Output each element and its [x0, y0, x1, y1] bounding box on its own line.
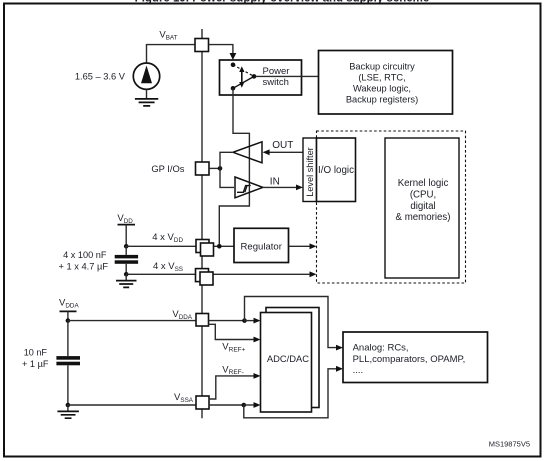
svg-text:VDDA: VDDA: [172, 309, 192, 321]
backup circuitry labels: [346, 61, 418, 104]
svg-text:& memories): & memories): [396, 212, 451, 223]
wire VBAT pin to power switch: [209, 45, 233, 54]
node regulator input junction: [217, 244, 222, 249]
main pin bus (vertical): [201, 29, 203, 418]
hysteresis symbol: [237, 186, 251, 193]
svg-text:digital: digital: [410, 201, 435, 212]
wire pin to junction: [209, 167, 220, 169]
GP I/Os pin square: [196, 162, 210, 175]
power switch box: [220, 60, 302, 95]
VDDA pin square: [196, 314, 209, 327]
svg-text:IN: IN: [270, 177, 280, 188]
svg-text:VDD: VDD: [117, 213, 133, 225]
wire power switch bottom to VDD junction (I/O buffer supply): [219, 88, 249, 246]
decoupling capacitors 4x100nF + 1x4.7uF: [115, 246, 138, 274]
svg-text:VREF+: VREF+: [222, 342, 245, 354]
svg-text:ADC/DAC: ADC/DAC: [267, 353, 309, 364]
arrow regulator to kernel domain: [310, 243, 317, 249]
OUT wire from level shifter: [269, 151, 303, 153]
arrow into power switch: [230, 53, 237, 60]
wire junction to input trigger: [220, 168, 234, 187]
arrow VREF+ into ADC/DAC: [254, 337, 261, 343]
analog block labels: [353, 343, 466, 376]
IN wire to level shifter: [263, 186, 297, 188]
dashed digital domain box: [317, 131, 466, 283]
svg-text:1.65 – 3.6 V: 1.65 – 3.6 V: [75, 72, 126, 82]
wire VSSA pin to ADC junction: [209, 404, 244, 406]
svg-text:I/O logic: I/O logic: [318, 165, 354, 176]
ADC/DAC back box: [266, 308, 319, 408]
svg-text:Power: Power: [263, 66, 290, 77]
kernel logic labels: [396, 178, 451, 223]
svg-text:Regulator: Regulator: [241, 242, 283, 253]
regulator output wire: [289, 245, 312, 247]
junction node GPIO: [218, 166, 223, 171]
VDDA wire: [68, 320, 196, 322]
svg-text:VSSA: VSSA: [174, 392, 194, 404]
svg-text:VREF-: VREF-: [222, 364, 244, 376]
I/O logic box: [317, 138, 356, 202]
svg-text:(CPU,: (CPU,: [410, 189, 436, 200]
VREF+ wire: [209, 324, 255, 339]
arrow VREF- into ADC/DAC: [254, 373, 261, 379]
svg-text:4 x VDD: 4 x VDD: [152, 232, 183, 244]
figure title (cut off at top edge): [135, 0, 430, 4]
VDD pin squares: [196, 240, 214, 257]
input Schmitt trigger triangle: [235, 177, 263, 198]
arrow VDDA into analog block: [336, 345, 343, 351]
svg-text:switch: switch: [263, 77, 289, 88]
ground (battery): [135, 99, 158, 106]
switch toggle double arrow: [239, 66, 244, 88]
level shifter box: [303, 138, 317, 202]
arrow VSSA into analog block: [336, 366, 343, 372]
node ADC VSSA junction: [242, 403, 247, 408]
svg-text:Level shifter: Level shifter: [305, 147, 315, 197]
node VDDA junction: [66, 318, 71, 323]
4 x VSS wire: [126, 273, 311, 275]
svg-text:GP I/Os: GP I/Os: [151, 163, 184, 174]
node VSS junction: [124, 272, 129, 277]
analog block box: [343, 332, 488, 383]
4 x VDD wire: [126, 245, 234, 247]
VREF- wire: [209, 376, 255, 399]
switch dashed throw: [233, 65, 254, 77]
svg-text:(LSE, RTC,: (LSE, RTC,: [358, 72, 405, 82]
VBAT pin square: [195, 39, 209, 52]
wire and arrow VDDA into ADC/DAC: [245, 320, 255, 322]
output buffer triangle: [233, 142, 262, 163]
wire VDDA pin to ADC junction: [209, 320, 245, 322]
switch solid throw: [233, 76, 254, 88]
wire junction to output buffer: [220, 152, 232, 168]
VSS pin squares: [196, 269, 214, 285]
svg-text:Kernel logic: Kernel logic: [398, 178, 449, 189]
svg-text:OUT: OUT: [272, 140, 293, 151]
VDDA rail symbol: [59, 298, 79, 321]
svg-text:10 nF: 10 nF: [24, 347, 48, 357]
node ADC VDDA junction: [242, 318, 247, 323]
wire and arrow VSSA into ADC/DAC: [244, 404, 254, 406]
arrow into level shifter: [296, 185, 303, 191]
VSSA wire: [68, 404, 196, 406]
VSSA wrap wire to analog block: [244, 369, 336, 418]
battery source V1 1.65-3.6 V: [133, 45, 195, 99]
regulator box: [234, 228, 289, 262]
switch pole node: [252, 74, 257, 79]
node VDD junction: [124, 244, 129, 249]
ground (VSSA): [57, 405, 79, 418]
ground (VSS): [116, 274, 137, 287]
wire power switch to backup circuitry: [256, 75, 319, 77]
ADC/DAC front box: [261, 313, 312, 413]
analog capacitors 10nF + 1uF: [56, 321, 80, 405]
svg-text:Backup circuitry: Backup circuitry: [349, 61, 415, 71]
svg-text:Analog: RCs,: Analog: RCs,: [353, 343, 409, 354]
svg-text:Backup registers): Backup registers): [346, 94, 418, 104]
svg-text:4 x VSS: 4 x VSS: [153, 261, 183, 273]
switch contact bottom node: [231, 86, 236, 91]
VSSA pin square: [196, 396, 209, 409]
svg-text:4 x 100 nF: 4 x 100 nF: [63, 250, 107, 260]
node VSSA junction: [66, 403, 71, 408]
kernel logic box: [385, 138, 459, 278]
svg-text:VDDA: VDDA: [59, 298, 79, 310]
VDD rail symbol: [117, 213, 135, 246]
svg-text:PLL,comparators, OPAMP,: PLL,comparators, OPAMP,: [353, 354, 466, 365]
switch contact top node: [231, 63, 236, 68]
arrow into output buffer: [263, 149, 270, 155]
svg-text:VBAT: VBAT: [159, 30, 177, 42]
arrow VSS to kernel domain: [310, 271, 317, 277]
backup circuitry box: [319, 51, 453, 115]
svg-text:+ 1 µF: + 1 µF: [22, 359, 49, 369]
svg-text:Wakeup logic,: Wakeup logic,: [353, 83, 411, 93]
svg-text:....: ....: [353, 365, 364, 376]
svg-text:+ 1 x 4.7 µF: + 1 x 4.7 µF: [58, 262, 108, 272]
VDDA wrap wire to analog block: [245, 297, 337, 348]
svg-text:MS19875V5: MS19875V5: [489, 440, 530, 449]
